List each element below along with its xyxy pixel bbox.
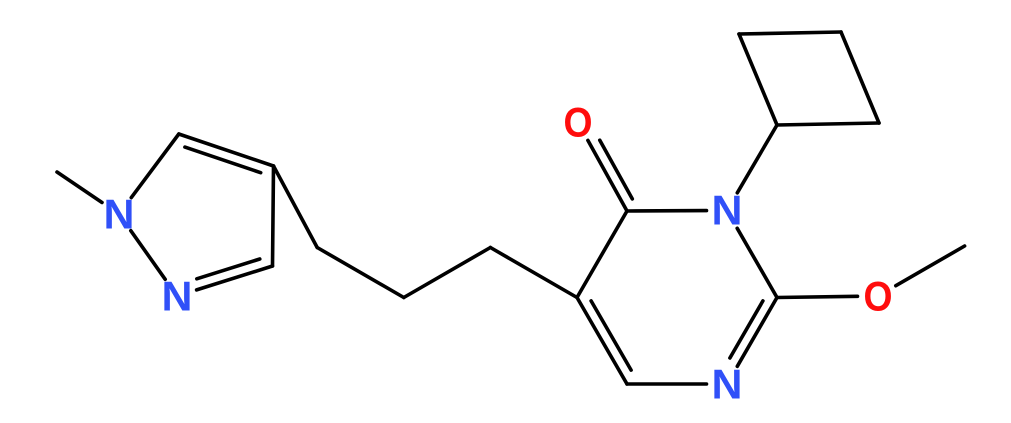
wire cyclobutane side b [739, 32, 841, 34]
wire N2=C3 pyrazole inner double line [197, 259, 260, 279]
wire ring C4-N3 [627, 209, 707, 213]
wire cyclobutane side c [841, 32, 879, 123]
wire C2-O methoxy bond [777, 296, 858, 297]
wire cyclobutane side d [777, 123, 879, 125]
wire C4=O carbonyl main line [588, 140, 627, 211]
wire pyrazole C4 to chain CH2 [274, 166, 318, 248]
wire ring C5-C4 [577, 211, 627, 298]
svg-text:O: O [564, 99, 593, 146]
wire C5-N1 pyrazole [131, 134, 179, 198]
wire chain CH2 to ring C5 [490, 248, 577, 298]
wire O-CH3 methoxy methyl [896, 246, 965, 286]
svg-text:N: N [104, 191, 135, 238]
wire ring N1-C6 [627, 382, 707, 386]
wire N1-CH3 methyl stub [57, 172, 102, 203]
wire C3-C4 pyrazole [273, 166, 274, 266]
wire C4=C5 pyrazole inner double line [185, 147, 261, 173]
wire ring C2=N1 inner double line [730, 301, 763, 358]
svg-text:N: N [712, 187, 743, 234]
wire ring N3-C2 [737, 228, 777, 297]
wire C4=O carbonyl second line [600, 140, 633, 199]
wire N2=C3 pyrazole main line [197, 266, 273, 290]
wire ring C2=N1 main line [737, 298, 777, 367]
wire chain CH2-CH2 a [317, 248, 404, 298]
wire N1-N2 pyrazole N-N bond [131, 231, 165, 280]
svg-text:O: O [864, 273, 893, 320]
wire N3-cyclobutyl bond [737, 125, 777, 193]
wire cyclobutane side a [739, 34, 777, 125]
wire C4=C5 pyrazole main line [179, 134, 274, 166]
wire ring C6=C5 inner double line [591, 301, 631, 370]
wire ring C6=C5 main line [577, 298, 627, 385]
svg-text:N: N [712, 361, 743, 408]
wire chain CH2-CH2 b [404, 248, 491, 298]
svg-text:N: N [162, 273, 193, 320]
